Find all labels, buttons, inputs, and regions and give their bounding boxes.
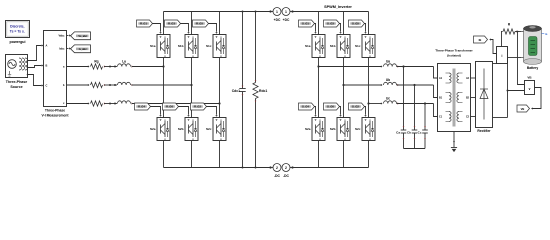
svg-text:i: i	[502, 54, 503, 58]
wire emitter inverter leg 2 to -DC bus	[343, 141, 345, 168]
svg-text:S2c: S2c	[355, 127, 361, 131]
wire phase b to rectifier leg 2	[190, 84, 192, 86]
wire emitter S2c to -DC bus	[219, 141, 221, 168]
from tag S_G5 (inverter)	[349, 20, 367, 34]
svg-text:Ts = Ts s.: Ts = Ts s.	[10, 30, 25, 34]
from tag R_G6	[163, 103, 190, 117]
svg-text:v: v	[529, 87, 531, 91]
svg-text:C: C	[46, 84, 48, 88]
wire phase c to transformer C1	[434, 104, 438, 117]
wire emitter inverter leg 3 to -DC bus	[368, 141, 370, 168]
svg-text:S_G1: S_G1	[302, 22, 309, 26]
from tag R_G1	[137, 20, 162, 34]
wire collector S1c to +DC bus	[219, 12, 221, 35]
svg-text:Is_abc: Is_abc	[79, 48, 87, 51]
three-phase transformer block	[438, 64, 471, 132]
connection port -DC (inverter side)	[282, 164, 294, 172]
svg-text:Vabc: Vabc	[58, 34, 65, 38]
svg-text:S1b: S1b	[330, 44, 336, 48]
capacitor Cb	[407, 84, 417, 149]
RL branch phase c (Rg, La)	[67, 101, 220, 106]
svg-text:S1a: S1a	[305, 44, 311, 48]
wire current measurement to goto IB	[489, 38, 496, 53]
svg-text:S_G2: S_G2	[352, 105, 359, 109]
wire capacitor bottom bus	[404, 148, 426, 150]
svg-text:S1b: S1b	[178, 44, 184, 48]
wire phase b to transformer B1	[434, 85, 438, 98]
goto tag VB	[517, 105, 530, 112]
resistor Rdc1 label	[259, 89, 267, 93]
inductor Ua label	[386, 60, 390, 64]
wire inverter leg 1 midpoint	[318, 58, 320, 118]
svg-text:S_G6: S_G6	[327, 105, 334, 109]
wire collector inverter leg 2	[343, 12, 345, 35]
three-phase source label	[6, 80, 28, 89]
inductor Ub label	[386, 78, 390, 82]
three-phase V-I measurement block	[44, 31, 67, 107]
filter inductor phase b (Ub)	[342, 82, 433, 86]
svg-text:2: 2	[285, 166, 287, 170]
svg-text:S1c: S1c	[206, 44, 212, 48]
svg-text:IB: IB	[479, 38, 482, 42]
inverter DC bus bottom	[293, 167, 369, 169]
svg-text:Ua: Ua	[386, 60, 390, 64]
wire transformer A2 to rectifier	[471, 77, 476, 79]
IGBT S1a	[150, 35, 170, 58]
svg-text:Cb: Cb	[407, 130, 411, 134]
label +DC +DC	[274, 18, 290, 22]
svg-text:2: 2	[276, 166, 278, 170]
wire emitter S2b to -DC bus	[191, 141, 193, 168]
connection port +DC (inverter side)	[282, 8, 294, 16]
svg-text:V-I Measurement: V-I Measurement	[42, 113, 70, 117]
from tag R_G4	[135, 103, 162, 117]
svg-text:-DC: -DC	[274, 174, 280, 178]
IGBT S2a (inverter)	[305, 118, 325, 141]
svg-text:Three-Phase: Three-Phase	[45, 109, 65, 113]
svg-text:S1a: S1a	[150, 44, 156, 48]
svg-text:R_G4: R_G4	[138, 105, 145, 109]
from tag S_G1 (inverter)	[299, 20, 317, 34]
resistor Rg label	[94, 60, 98, 64]
IGBT S1b	[178, 35, 198, 58]
powergui block	[6, 21, 30, 38]
svg-text:Source: Source	[10, 85, 22, 89]
wire phase a to rectifier leg 1	[162, 65, 164, 67]
inductor Uc label	[386, 97, 390, 101]
wire source A to measurement A	[28, 44, 44, 60]
three-phase V-I measurement label	[42, 109, 70, 118]
IGBT S2c (inverter)	[355, 118, 375, 141]
IGBT S1c	[206, 35, 226, 58]
svg-text:VB: VB	[521, 107, 525, 111]
wire collector inverter leg 3	[368, 12, 370, 35]
wire node to VB -	[508, 90, 525, 92]
wire collector inverter leg 1	[318, 12, 320, 35]
wire source B to measurement B	[28, 64, 44, 67]
svg-text:Uc: Uc	[386, 97, 390, 101]
wire rectifier + to current measurement	[493, 63, 502, 65]
svg-text:Cc: Cc	[418, 130, 422, 134]
IGBT S1c (inverter)	[355, 35, 375, 58]
svg-text:powergui: powergui	[10, 40, 26, 44]
ground (transformer neutral)	[451, 132, 457, 153]
svg-text:Ub: Ub	[386, 78, 390, 82]
svg-text:S2a: S2a	[150, 127, 156, 131]
svg-text:R_G2: R_G2	[194, 105, 201, 109]
connection port -DC (rectifier side)	[269, 164, 281, 172]
svg-text:B: B	[46, 64, 48, 68]
svg-text:Rectifier: Rectifier	[477, 129, 491, 133]
wire node to rectifier -	[493, 58, 509, 118]
voltage measurement VB label	[527, 76, 532, 80]
wire inverter leg 3 midpoint	[368, 58, 370, 118]
svg-text:1: 1	[276, 10, 278, 14]
svg-text:R_G3: R_G3	[168, 22, 175, 26]
wire battery + to VB +	[518, 32, 525, 85]
svg-text:A: A	[46, 44, 48, 48]
capacitor Cdc1	[239, 12, 245, 168]
wire collector S1b to +DC bus	[191, 12, 193, 35]
wire emitter inverter leg 1 to -DC bus	[318, 141, 320, 168]
battery label	[527, 66, 539, 70]
svg-text:+DC: +DC	[283, 18, 290, 22]
resistor R label	[508, 23, 511, 27]
rectifier DC bus bottom	[164, 167, 271, 169]
goto tag IB	[474, 36, 488, 43]
RL branch phase b (Rg, La)	[67, 82, 192, 87]
svg-text:Discrete,: Discrete,	[10, 25, 24, 29]
capacitor Cdc1 label	[232, 89, 240, 93]
svg-text:S_G4: S_G4	[302, 105, 309, 109]
IGBT S2b (inverter)	[330, 118, 350, 141]
svg-text:La: La	[122, 60, 126, 64]
wire Vabc to goto tag	[67, 34, 71, 36]
svg-text:Three-Phase: Three-Phase	[6, 80, 28, 84]
wire Iabc to goto tag	[67, 47, 71, 49]
svg-text:Ca: Ca	[396, 130, 400, 134]
from tag S_G4 (inverter)	[299, 103, 317, 117]
from tag S_G2 (inverter)	[349, 103, 367, 117]
IGBT S1b (inverter)	[330, 35, 350, 58]
wire leg 1 midpoint	[163, 58, 165, 118]
svg-text:1: 1	[285, 10, 287, 14]
wire battery - to node	[508, 57, 522, 59]
svg-text:R: R	[508, 23, 511, 27]
svg-text:Rg: Rg	[94, 60, 98, 64]
from tag R_G5	[193, 20, 218, 34]
wire source C to measurement C	[28, 75, 44, 87]
wire transformer C2 to rectifier	[471, 116, 476, 118]
label -DC -DC	[274, 174, 289, 178]
svg-text:SPWM_Inverter: SPWM_Inverter	[324, 5, 352, 9]
svg-text:S2a: S2a	[305, 127, 311, 131]
three-phase transformer title	[435, 49, 473, 58]
svg-text:S1c: S1c	[355, 44, 361, 48]
three-phase source block	[6, 55, 29, 78]
svg-text:Rdc1: Rdc1	[259, 89, 267, 93]
goto tag Is_abc	[71, 45, 91, 53]
IGBT S1a (inverter)	[305, 35, 325, 58]
svg-text:R_G6: R_G6	[166, 105, 173, 109]
wire leg 2 midpoint	[191, 58, 193, 118]
capacitor Cc	[418, 102, 428, 148]
IGBT S2a	[150, 118, 170, 141]
wire transformer B2 to rectifier	[471, 97, 476, 99]
inductor La label	[122, 60, 126, 64]
current measurement IB block	[497, 47, 508, 64]
inverter DC bus top	[293, 11, 369, 13]
wire leg 3 midpoint	[219, 58, 221, 118]
svg-text:S2c: S2c	[206, 127, 212, 131]
resistor Rdc1	[253, 12, 258, 168]
wire phase a to transformer A1	[434, 67, 438, 79]
from tag R_G2	[191, 103, 218, 117]
label SPWM_Inverter	[324, 5, 352, 9]
battery block	[521, 26, 548, 65]
svg-text:Cdc1: Cdc1	[232, 89, 240, 93]
from tag S_G3 (inverter)	[324, 20, 342, 34]
svg-text:R_G5: R_G5	[196, 22, 203, 26]
from tag R_G3	[165, 20, 190, 34]
capacitor Ca	[396, 65, 406, 148]
filter inductor phase c (Uc)	[367, 101, 433, 105]
svg-text:Three-Phase Transformer: Three-Phase Transformer	[435, 49, 473, 53]
wire collector S1a to +DC bus	[163, 12, 165, 35]
from tag S_G6 (inverter)	[324, 103, 342, 117]
wire current measurement to resistor R	[502, 32, 503, 47]
IGBT S2b	[178, 118, 198, 141]
voltage measurement VB block	[525, 81, 535, 95]
svg-text:Vs_abc: Vs_abc	[78, 35, 87, 38]
wire VB output to goto tag	[531, 88, 541, 110]
svg-text:S_G5: S_G5	[352, 22, 359, 26]
svg-text:Battery: Battery	[527, 66, 539, 70]
filter inductor phase a (Ua)	[317, 64, 433, 68]
svg-text:R_G1: R_G1	[140, 22, 147, 26]
rectifier DC bus top	[164, 11, 271, 13]
goto tag Vs_abc	[71, 32, 91, 40]
svg-text:m: m	[545, 33, 548, 36]
wire inverter leg 2 midpoint	[343, 58, 345, 118]
rectifier label	[477, 129, 491, 133]
powergui label	[10, 40, 26, 44]
svg-text:VB: VB	[527, 76, 532, 80]
wire emitter S2a to -DC bus	[163, 141, 165, 168]
svg-text:Iabc: Iabc	[59, 47, 65, 51]
rectifier block	[476, 62, 493, 128]
svg-text:+DC: +DC	[274, 18, 281, 22]
svg-text:S2b: S2b	[178, 127, 184, 131]
wire phase c to rectifier leg 3	[218, 102, 220, 104]
svg-text:S_G3: S_G3	[327, 22, 334, 26]
RL branch phase a (Rg, La)	[67, 64, 164, 69]
svg-text:-DC: -DC	[283, 174, 289, 178]
connection port +DC (rectifier side)	[269, 8, 281, 16]
svg-text:(Isolated): (Isolated)	[447, 54, 461, 58]
series resistor R	[503, 29, 521, 34]
svg-text:S2b: S2b	[330, 127, 336, 131]
IGBT S2c	[206, 118, 226, 141]
